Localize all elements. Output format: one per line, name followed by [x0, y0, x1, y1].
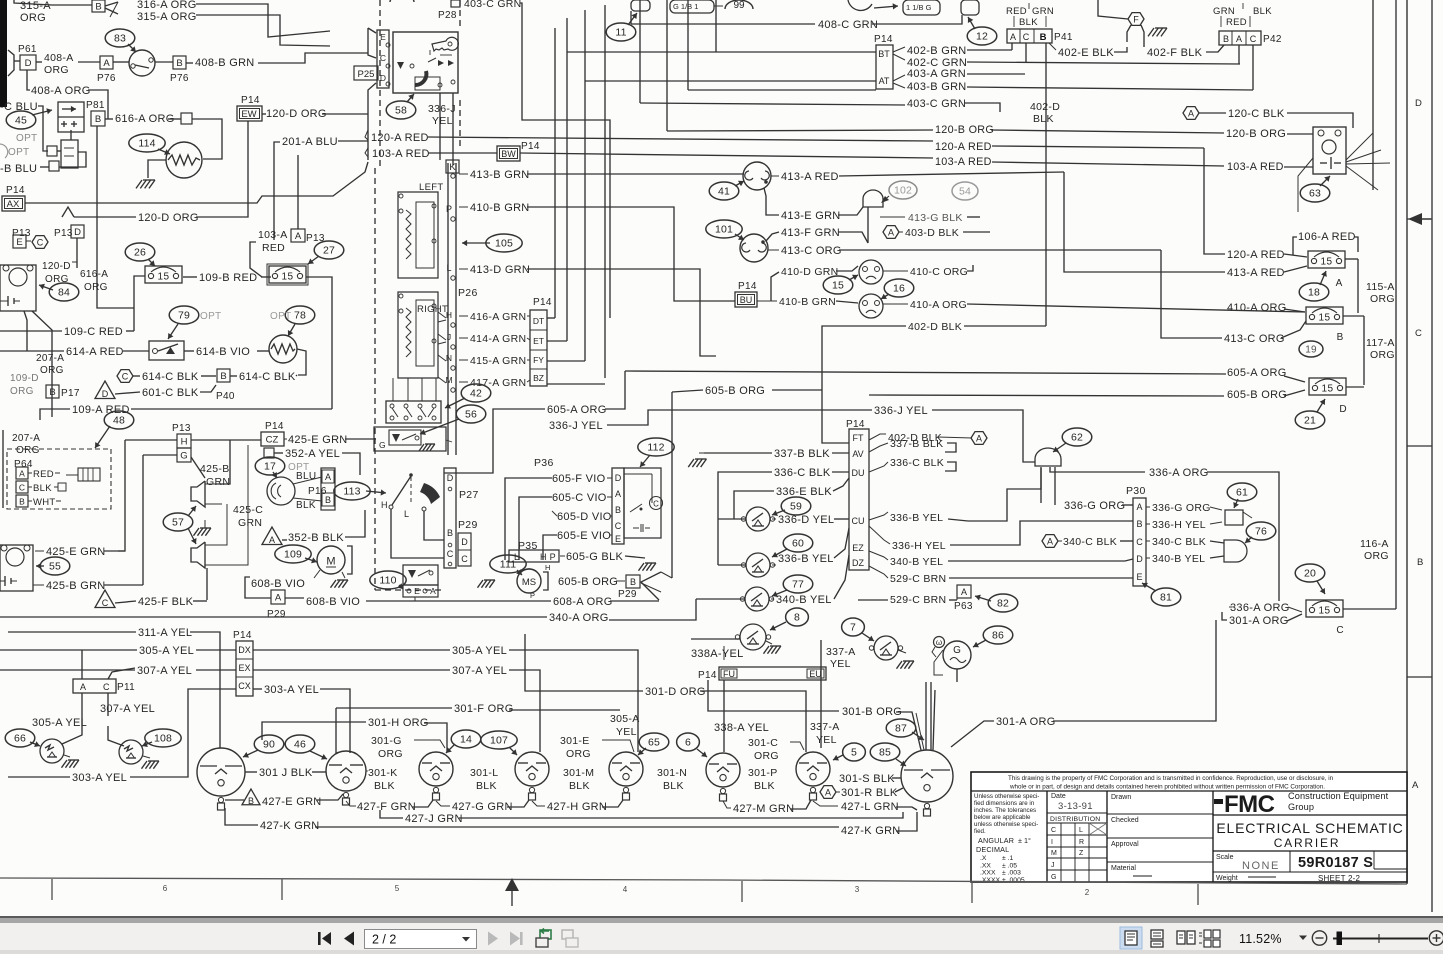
- svg-text:RED: RED: [262, 242, 285, 254]
- svg-text:P14: P14: [233, 630, 252, 641]
- wire 403-C GRN bus: [640, 103, 905, 105]
- svg-text:338A-YEL: 338A-YEL: [691, 648, 744, 660]
- svg-text:BLK: BLK: [754, 780, 775, 792]
- connector G P13: [177, 448, 191, 462]
- wire fuse35 right: [306, 277, 332, 409]
- svg-text:120-B ORG: 120-B ORG: [1226, 128, 1286, 140]
- svg-text:605-D VIO: 605-D VIO: [557, 511, 612, 523]
- svg-text:27: 27: [323, 245, 335, 257]
- P64 comb: [78, 468, 100, 481]
- solenoid valve lower: [61, 140, 78, 168]
- svg-text:BLK: BLK: [296, 500, 316, 511]
- svg-text:415-A GRN: 415-A GRN: [470, 355, 526, 367]
- connector P29: [458, 533, 471, 566]
- svg-text:-B BLU: -B BLU: [0, 163, 37, 175]
- wire 115-A ORG: [1345, 258, 1358, 260]
- svg-text:425-B GRN: 425-B GRN: [46, 580, 106, 592]
- battery G1B1: [670, 0, 714, 13]
- oval 59: [781, 497, 811, 515]
- connector D P61: [20, 55, 36, 70]
- svg-text:336-B YEL: 336-B YEL: [778, 553, 834, 565]
- lighter 61: [1225, 510, 1243, 525]
- svg-text:YEL: YEL: [616, 726, 637, 738]
- oval 85: [870, 743, 900, 761]
- svg-text:337-B BLK: 337-B BLK: [774, 448, 830, 460]
- svg-text:AT: AT: [879, 76, 890, 86]
- svg-text:106-A RED: 106-A RED: [1298, 231, 1356, 243]
- wire 427-K GRN left: [225, 808, 258, 825]
- wire 608-B VIO 2: [285, 597, 304, 599]
- speaker 1: [191, 481, 205, 507]
- wire EX to 307-A: [253, 669, 450, 671]
- svg-text:605-C VIO: 605-C VIO: [552, 492, 607, 504]
- svg-text:410-D GRN: 410-D GRN: [781, 266, 839, 278]
- svg-text:E: E: [414, 586, 420, 596]
- connector P41: [1007, 29, 1052, 43]
- svg-text:109: 109: [284, 549, 302, 561]
- svg-text:R: R: [1079, 839, 1084, 846]
- svg-text:427-F GRN: 427-F GRN: [357, 801, 416, 813]
- oval 46: [285, 735, 315, 753]
- svg-text:CX: CX: [238, 681, 251, 691]
- svg-text:P14: P14: [533, 297, 552, 308]
- svg-text:605-B ORG: 605-B ORG: [558, 576, 618, 588]
- svg-text:614-C BLK: 614-C BLK: [239, 371, 296, 383]
- wire 413-C ORG: [768, 249, 779, 251]
- svg-text:81: 81: [1160, 592, 1172, 604]
- svg-text:This drawing is the property o: This drawing is the property of FMC Corp…: [1008, 775, 1334, 782]
- oval 27: [314, 241, 344, 259]
- wire 336-H YEL right: [1146, 523, 1150, 525]
- wire 301-F ORG: [336, 707, 452, 709]
- svg-text:Date: Date: [1051, 793, 1066, 800]
- oval 86: [983, 626, 1013, 644]
- svg-text:336-C BLK: 336-C BLK: [890, 457, 944, 469]
- zone tick 2: [281, 879, 283, 900]
- page number box: [365, 930, 477, 949]
- date cell: [1047, 812, 1107, 814]
- svg-text:403-D BLK: 403-D BLK: [905, 227, 959, 239]
- title notice border: [971, 790, 1407, 792]
- zone arrow up: [505, 878, 519, 891]
- oval 11: [606, 23, 636, 41]
- svg-text:BLK: BLK: [33, 483, 52, 494]
- svg-text:58: 58: [395, 105, 407, 117]
- svg-text:AX: AX: [7, 199, 20, 210]
- svg-text:C: C: [1051, 827, 1056, 834]
- svg-text:101: 101: [715, 224, 733, 236]
- svg-text:336-D YEL: 336-D YEL: [778, 514, 834, 526]
- svg-text:403-B GRN: 403-B GRN: [907, 81, 967, 93]
- wire P11 down A: [62, 693, 82, 744]
- svg-text:C: C: [447, 549, 454, 559]
- svg-text:336-A ORG: 336-A ORG: [1230, 602, 1290, 614]
- checked cell: [1107, 813, 1213, 815]
- svg-text:2: 2: [1085, 888, 1090, 897]
- ground speakers: [200, 527, 211, 529]
- svg-text:A: A: [1412, 780, 1419, 791]
- svg-text:EU: EU: [809, 669, 822, 679]
- svg-text:336-G ORG: 336-G ORG: [1152, 502, 1211, 514]
- svg-text:18: 18: [1308, 287, 1320, 299]
- vert 425-B: [142, 455, 144, 585]
- svg-text:SHEET 2-2: SHEET 2-2: [1318, 874, 1360, 883]
- wire FU drop: [723, 680, 725, 752]
- zoom slider: [1333, 938, 1428, 940]
- svg-text:90: 90: [263, 739, 275, 751]
- oval 56: [456, 405, 486, 423]
- zone tick 3: [741, 881, 743, 902]
- lamp 14: [419, 752, 453, 786]
- wire lever H: [391, 509, 444, 558]
- oval 26: [125, 243, 155, 261]
- svg-text:D: D: [25, 58, 32, 69]
- svg-text:D: D: [447, 473, 454, 483]
- oval 57: [163, 513, 193, 531]
- icon next page: [488, 932, 498, 946]
- vert bus 667: [666, 0, 668, 131]
- dashed line right of ignition: [459, 0, 461, 30]
- wire 408-A ORG branch: [27, 70, 30, 90]
- svg-text:413-A RED: 413-A RED: [1227, 267, 1285, 279]
- oval 84: [49, 283, 79, 301]
- wire 336-A ORG bus: [1050, 467, 1145, 472]
- wire dome legs: [1054, 467, 1056, 505]
- oval 6: [677, 733, 700, 751]
- hex A 301-R: [820, 786, 836, 799]
- oval 102: [889, 181, 917, 199]
- wire 614-A RED: [0, 350, 64, 352]
- svg-text:5: 5: [851, 747, 857, 759]
- label P25 box: [354, 66, 378, 80]
- oval 15c: [823, 276, 853, 294]
- svg-text:C: C: [380, 53, 386, 63]
- svg-text:340-B YEL: 340-B YEL: [1152, 553, 1205, 565]
- svg-text:413-F GRN: 413-F GRN: [781, 227, 840, 239]
- svg-text:Group: Group: [1288, 802, 1314, 812]
- svg-text:B: B: [49, 387, 55, 398]
- wires horn to AB: [293, 477, 322, 484]
- oval 48: [104, 411, 134, 429]
- drawn cell: [1106, 791, 1108, 882]
- svg-text:12: 12: [976, 31, 988, 43]
- solenoid valve 45: [58, 102, 84, 132]
- wire 413-C ORG right: [1161, 250, 1222, 338]
- svg-text:116-A: 116-A: [1360, 538, 1389, 550]
- tolerance cell border: [1046, 791, 1048, 882]
- svg-text:340-C BLK: 340-C BLK: [1063, 536, 1117, 548]
- sheet bottom border: [0, 878, 1407, 884]
- svg-text:BU: BU: [740, 295, 753, 305]
- svg-text:P29: P29: [618, 589, 637, 600]
- svg-text:85: 85: [879, 747, 891, 759]
- svg-text:E: E: [380, 32, 386, 42]
- svg-text:301-B ORG: 301-B ORG: [842, 706, 902, 718]
- svg-text:B: B: [95, 114, 101, 125]
- svg-text:B: B: [1136, 519, 1142, 529]
- wire 427-E GRN: [225, 799, 244, 801]
- svg-text:P25: P25: [358, 69, 375, 80]
- wire bracket P25: [368, 28, 376, 33]
- hex A 403-D: [883, 226, 899, 239]
- svg-text:120-B ORG: 120-B ORG: [935, 124, 994, 136]
- wire 408-B GRN: [186, 62, 193, 64]
- wire 605-A step: [605, 371, 625, 409]
- fuse 15 A: [1308, 251, 1345, 268]
- wire branch to 316/315: [105, 2, 118, 6]
- svg-text:C: C: [1415, 328, 1422, 339]
- wire 413-A RED: [771, 175, 779, 177]
- svg-text:MS: MS: [522, 577, 536, 588]
- svg-text:WHT: WHT: [33, 497, 56, 508]
- svg-text:ORG: ORG: [84, 282, 108, 293]
- battery term 11: [631, 0, 650, 11]
- svg-text:413-C ORG: 413-C ORG: [781, 245, 842, 257]
- flasher 108: [119, 740, 143, 764]
- oval 58: [386, 101, 416, 119]
- svg-text:83: 83: [114, 33, 126, 45]
- oval 112: [638, 438, 674, 456]
- oval 66: [5, 729, 35, 747]
- svg-text:P29: P29: [267, 609, 286, 620]
- svg-text:402-D BLK: 402-D BLK: [908, 321, 962, 333]
- svg-text:P14: P14: [698, 670, 717, 681]
- oval 113: [334, 482, 370, 500]
- zone tick 1: [51, 879, 53, 900]
- logo row border: [1213, 814, 1407, 816]
- svg-text:P28: P28: [438, 10, 457, 21]
- buzzer 76: [1224, 540, 1247, 562]
- icon single page selected: [1120, 927, 1142, 949]
- svg-text:± .0005: ± .0005: [1002, 877, 1025, 884]
- connector A P13 103: [291, 229, 305, 242]
- wire CU right 336-B: [869, 512, 888, 520]
- svg-text:C: C: [37, 238, 44, 248]
- oval 105: [486, 234, 522, 252]
- svg-text:427-H GRN: 427-H GRN: [547, 801, 607, 813]
- switch 614: [149, 341, 184, 360]
- P36 step wires: [505, 478, 552, 560]
- svg-text:301-R BLK: 301-R BLK: [841, 787, 898, 799]
- svg-text:ORG: ORG: [566, 748, 591, 760]
- svg-text:ET: ET: [533, 336, 544, 346]
- svg-text:Unless otherwise speci-: Unless otherwise speci-: [974, 793, 1039, 800]
- svg-text:BLK: BLK: [663, 780, 684, 792]
- svg-text:ORG: ORG: [1370, 349, 1395, 361]
- svg-text:EW: EW: [241, 109, 256, 120]
- svg-text:FY: FY: [533, 355, 544, 365]
- svg-text:P30: P30: [1126, 485, 1146, 497]
- wire 427-G GRN: [436, 801, 450, 806]
- flasher dome 102: [863, 190, 883, 207]
- lamp 46: [326, 751, 366, 791]
- ignition contacts: [397, 62, 404, 69]
- svg-text:FMC: FMC: [1224, 791, 1275, 818]
- wire 605-B arrowin: [641, 572, 661, 600]
- svg-text:307-A YEL: 307-A YEL: [137, 665, 192, 677]
- svg-text:340-C BLK: 340-C BLK: [1152, 536, 1206, 548]
- wire 103-A RED: [365, 148, 368, 157]
- wire 340-C BLK right: [1146, 540, 1150, 542]
- svg-text:529-C BRN: 529-C BRN: [890, 573, 946, 585]
- wire 427-F GRN: [346, 801, 356, 806]
- svg-text:352-A YEL: 352-A YEL: [285, 448, 340, 460]
- svg-text:ORG: ORG: [1370, 293, 1395, 305]
- svg-text:YEL: YEL: [830, 658, 851, 670]
- oval 109: [275, 545, 311, 563]
- connector 110 EA: [403, 585, 438, 597]
- svg-text:G: G: [180, 450, 187, 461]
- svg-text:G: G: [379, 440, 386, 450]
- zone divider BA: [1407, 676, 1432, 678]
- wire 336-G ORG right: [1146, 506, 1150, 508]
- svg-text:410-A ORG: 410-A ORG: [1227, 302, 1287, 314]
- svg-text:66: 66: [14, 733, 26, 745]
- svg-text:103-A: 103-A: [258, 229, 288, 241]
- hazard wires up: [392, 378, 394, 401]
- svg-text:413-E GRN: 413-E GRN: [781, 210, 841, 222]
- svg-text:P14: P14: [265, 421, 284, 432]
- svg-text:114: 114: [138, 138, 155, 150]
- svg-text:ORG: ORG: [1364, 550, 1389, 562]
- svg-text:P76: P76: [97, 73, 116, 84]
- svg-text:BLK: BLK: [569, 780, 590, 792]
- svg-text:G: G: [953, 645, 961, 656]
- svg-text:107: 107: [490, 735, 508, 747]
- svg-text:B: B: [220, 371, 226, 382]
- svg-text:337-A: 337-A: [810, 721, 840, 733]
- svg-text:unless otherwise speci-: unless otherwise speci-: [974, 821, 1038, 828]
- svg-text:99: 99: [733, 0, 745, 11]
- svg-text:BLK: BLK: [1253, 6, 1272, 17]
- svg-text:427-L GRN: 427-L GRN: [841, 801, 899, 813]
- svg-text:7: 7: [850, 622, 856, 634]
- svg-text:I: I: [1051, 839, 1053, 846]
- svg-text:DX: DX: [238, 645, 251, 655]
- svg-text:RED: RED: [1006, 6, 1027, 17]
- oval 61: [1227, 483, 1257, 501]
- zoom dropdown arrow: [1299, 936, 1307, 941]
- wire 120-B ORG bus: [667, 130, 933, 131]
- wire 605-G BLK: [560, 555, 565, 557]
- connector BU P14: [735, 292, 757, 307]
- horn 77: [745, 587, 769, 611]
- ignition switch box: [393, 32, 458, 93]
- svg-text:D: D: [1415, 98, 1422, 109]
- svg-text:111: 111: [500, 559, 517, 571]
- svg-text:F: F: [1133, 15, 1139, 25]
- wire to ground 114: [148, 160, 166, 178]
- wire 413-B GRN: [459, 173, 468, 175]
- svg-text:ORG: ORG: [20, 12, 46, 24]
- oval 55: [40, 557, 70, 575]
- clearance lamp 15: [859, 260, 883, 284]
- connector A P63: [957, 585, 971, 598]
- svg-text:529-C BRN: 529-C BRN: [890, 594, 946, 606]
- svg-text:fied dimensions are in: fied dimensions are in: [974, 800, 1035, 807]
- hex F: [1128, 13, 1144, 26]
- svg-text:DT: DT: [533, 316, 544, 326]
- oval 8h: [786, 608, 809, 626]
- horn circle 101: [740, 234, 768, 262]
- svg-text:305-A YEL: 305-A YEL: [452, 645, 507, 657]
- svg-text:OPT: OPT: [16, 133, 37, 144]
- wire 109-C RED: [0, 330, 62, 332]
- oval 83: [105, 29, 135, 47]
- connector P11: [73, 679, 116, 693]
- connector H P13: [177, 434, 191, 448]
- svg-text:408-C GRN: 408-C GRN: [818, 19, 878, 31]
- wire G row: [143, 454, 177, 456]
- horn button 62: [1035, 448, 1061, 466]
- svg-text:CZ: CZ: [266, 435, 279, 446]
- svg-text:26: 26: [134, 247, 146, 259]
- svg-text:BLK: BLK: [1033, 113, 1054, 125]
- svg-text:DISTRIBUTION: DISTRIBUTION: [1050, 816, 1100, 823]
- svg-text:307-A YEL: 307-A YEL: [452, 665, 507, 677]
- vert bus 567: [566, 18, 568, 341]
- motor comp left: [0, 265, 36, 311]
- connector DT ET FY BZ: [530, 310, 547, 386]
- svg-text:± .05: ± .05: [1002, 862, 1017, 869]
- svg-text:301-A ORG: 301-A ORG: [1229, 615, 1289, 627]
- svg-text:GRN: GRN: [1213, 6, 1235, 17]
- oval 60: [783, 534, 813, 552]
- connector P30: [1133, 498, 1146, 586]
- icon last page: [510, 932, 520, 946]
- svg-text:336-A ORG: 336-A ORG: [1149, 467, 1209, 479]
- svg-text:C: C: [1023, 32, 1030, 42]
- switch box 112: [624, 468, 661, 538]
- svg-text:B: B: [447, 528, 453, 538]
- svg-text:BT: BT: [878, 49, 890, 59]
- svg-text:21: 21: [1304, 415, 1316, 427]
- key switch 83: [129, 50, 155, 76]
- pin square 352-A: [264, 448, 274, 458]
- svg-text:416-A GRN: 416-A GRN: [470, 311, 526, 323]
- svg-text:109-D: 109-D: [10, 373, 39, 384]
- svg-text:NONE: NONE: [1242, 860, 1280, 872]
- dashed line left of ignition: [379, 0, 381, 168]
- svg-text:A: A: [1010, 32, 1016, 42]
- vert bus 688: [687, 0, 689, 90]
- battery circle partial: [848, 0, 872, 10]
- svg-text:A: A: [430, 586, 436, 596]
- svg-text:P81: P81: [86, 100, 105, 111]
- wire FY right: [547, 360, 585, 362]
- icon prev page: [344, 932, 354, 946]
- wire ET right: [547, 340, 567, 342]
- svg-text:P17: P17: [61, 388, 80, 399]
- triangle A 352: [262, 527, 282, 545]
- oval 110: [370, 571, 406, 589]
- icon next view: [562, 930, 573, 939]
- svg-text:301-G: 301-G: [371, 735, 402, 747]
- wire 301-A ORG path: [951, 721, 994, 747]
- svg-text:ORG: ORG: [10, 386, 34, 397]
- material cell: [1107, 861, 1213, 863]
- wire CX 303-A YEL: [253, 688, 262, 690]
- oval 76: [1246, 522, 1276, 540]
- svg-text:614-A RED: 614-A RED: [66, 346, 124, 358]
- svg-text:608-B VIO: 608-B VIO: [306, 596, 360, 608]
- svg-text:BLK: BLK: [1019, 17, 1038, 28]
- svg-text:C: C: [102, 598, 109, 608]
- svg-text:303-A YEL: 303-A YEL: [72, 772, 127, 784]
- svg-text:B: B: [248, 796, 254, 806]
- icon two pages continuous: [1204, 930, 1211, 938]
- svg-text:C: C: [1336, 625, 1343, 636]
